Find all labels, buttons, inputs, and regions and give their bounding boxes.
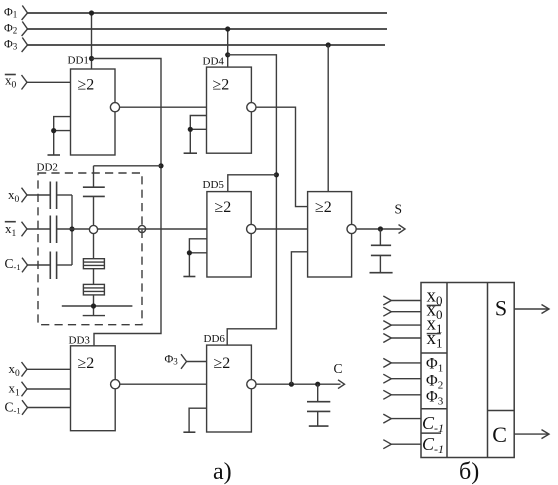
wire Φ2 to DD4 top pin [227, 29, 229, 67]
pin label x1 [427, 313, 443, 336]
gate DD1 [68, 55, 120, 156]
svg-text:x1: x1 [9, 381, 21, 399]
junction on Φ1 bus [89, 10, 94, 15]
junction S output node [378, 226, 383, 231]
label x0 input (DD2) [8, 187, 20, 205]
wire x0 to DD3 [27, 368, 71, 370]
capacitor C (x0 coupling) [50, 182, 56, 210]
gate DD5 [203, 179, 256, 277]
input terminal chevron C-1 (b) [383, 414, 391, 423]
label Φ3 [4, 37, 18, 52]
junction on Φ3 bus [326, 42, 331, 47]
wire Φ3 bus [28, 44, 386, 46]
wire C-1 (b) [391, 418, 421, 420]
label Φ1 [4, 5, 17, 20]
label x0 input (DD3) [9, 361, 21, 379]
pin label Φ3 [426, 388, 444, 407]
svg-text:DD2: DD2 [37, 162, 58, 174]
capacitor on C output [307, 384, 330, 426]
input terminal chevron x0 [22, 362, 28, 377]
svg-text:C: C [334, 361, 343, 376]
input terminal chevron x1 (b) [383, 321, 391, 330]
input terminal chevron Φ3 [181, 354, 187, 369]
arrow head S output [399, 225, 406, 234]
ground (DD2) [62, 306, 133, 316]
ground at S capacitor [370, 272, 393, 274]
label C-1 input (DD3) [5, 400, 21, 416]
input terminal chevron x0 (b) [383, 296, 391, 305]
wire C̄-1 (b) [391, 443, 421, 445]
svg-text:≥2: ≥2 [215, 199, 232, 216]
wire C-1 to coupling cap [28, 264, 51, 266]
svg-text:≥2: ≥2 [78, 355, 95, 372]
DD2 dashed boundary box [38, 173, 142, 325]
label C-1 input [5, 256, 21, 272]
pin label C-1 [422, 413, 444, 435]
wire DD3 output to DD6 input [120, 383, 207, 385]
wire x̄1 to coupling cap [27, 228, 50, 230]
wire VT2 to ground [93, 295, 95, 316]
boundary terminal circle on DD2 box [138, 225, 145, 232]
ground at C capacitor [309, 425, 329, 427]
wire Φ3 (b) [391, 394, 421, 396]
wire DD1 output to DD4 input [120, 106, 207, 108]
capacitor C (C-1 coupling) [50, 252, 56, 280]
wire DD6 out up to S-gate lower input [291, 252, 307, 384]
block DD (one-bit adder, part b) [421, 283, 514, 458]
capacitor C (x̄1 coupling) [50, 216, 56, 244]
wire Φ2 (b) [391, 378, 421, 380]
arrow head C output (b) [542, 430, 550, 439]
input terminal chevron x1 [22, 382, 28, 397]
svg-text:DD6: DD6 [204, 333, 226, 345]
input terminal chevron Φ3 (b) [383, 390, 391, 399]
svg-text:C-1: C-1 [422, 434, 444, 456]
input terminal chevron C̄-1 (b) [383, 440, 391, 449]
node circle (DD2 internal node) [89, 225, 97, 233]
ground tie DD5 unused inputs [183, 239, 207, 277]
svg-text:S: S [395, 202, 403, 217]
wire S output (b) [514, 308, 549, 310]
svg-text:Φ3: Φ3 [4, 37, 18, 52]
label x1 input (DD3) [9, 381, 21, 399]
capacitor storage (DD2 top) [83, 187, 105, 196]
wire branch to DD3 net [92, 59, 162, 346]
transistor VT2 (striped box) [83, 284, 104, 295]
junction DD2 feedback tap on Φ1 net [158, 163, 163, 168]
arrow head S output (b) [542, 305, 550, 314]
wire DD6 output to C arrow [256, 383, 341, 385]
wire Φ2 net vertical run [227, 55, 276, 345]
gate DD6 [204, 333, 256, 432]
svg-text:DD3: DD3 [69, 335, 91, 347]
junction node DD4 top branch [225, 52, 230, 57]
wire x1 (b) [391, 324, 421, 326]
junction node DD1 top branch [89, 56, 94, 61]
junction on Φ2 bus [225, 26, 230, 31]
svg-text:Φ1: Φ1 [4, 5, 17, 20]
input terminal chevron x̄1 (b) [383, 334, 391, 343]
junction C output node [315, 382, 320, 387]
wire x0 cap to summing bus [57, 194, 72, 196]
transistor VT1 (striped box) [83, 259, 104, 269]
gate DD3 [71, 346, 120, 431]
wire x0 to coupling cap [27, 194, 50, 196]
junction DD6 out to S-gate [289, 382, 294, 387]
pin label Φ2 [426, 372, 443, 391]
wire x̄0 to DD1 [27, 81, 71, 83]
wire x̄1 cap to summing node and DD5 input [57, 228, 207, 230]
wire VT1 to VT2 [93, 269, 95, 285]
input terminal chevron x̄1 [22, 222, 28, 237]
input terminal chevron Φ1 (b) [383, 358, 391, 367]
wire Φ1 net tap to storage cap [94, 165, 162, 167]
wire Φ3 to S-gate top pin [327, 45, 329, 192]
wire Φ3 to DD6 [187, 361, 207, 363]
wire x0 (b) [391, 300, 421, 302]
wire node to MOS stack [93, 234, 95, 259]
wire Φ2 bus [28, 28, 388, 30]
pin label x̄1 [427, 333, 441, 335]
gate DD7 (sum output NOR) [308, 192, 357, 277]
svg-text:DD5: DD5 [203, 179, 225, 191]
svg-text:≥2: ≥2 [213, 77, 230, 94]
svg-text:C-1: C-1 [5, 256, 21, 272]
svg-text:Φ2: Φ2 [4, 21, 17, 36]
junction Φ2 net to DD5 [274, 172, 279, 177]
svg-text:DD4: DD4 [203, 56, 225, 68]
input terminal chevron Φ2 (b) [383, 374, 391, 383]
input terminal chevron Φ3 [22, 38, 28, 53]
input terminal chevron C-1 [22, 258, 28, 273]
junction at DD2 ground [91, 303, 96, 308]
pin label x̄0 [427, 304, 441, 306]
wire x1 to DD3 [27, 388, 71, 390]
svg-text:Φ3: Φ3 [165, 351, 179, 366]
svg-text:S: S [495, 295, 507, 320]
arrow head C output [338, 380, 345, 389]
wire Φ1 bus [28, 12, 388, 14]
ground tie DD4 unused inputs [184, 116, 207, 154]
wire x̄1 (b) [391, 337, 421, 339]
wire summing bus vertical [71, 195, 73, 265]
input terminal chevron x0 [22, 188, 28, 203]
input terminal chevron x̄0 (b) [383, 307, 391, 316]
wire DD4 output to S-gate upper input [256, 107, 308, 206]
svg-text:≥2: ≥2 [78, 77, 95, 94]
wire cap to node circle [93, 196, 95, 225]
wire Φ1 to DD1 top pin [91, 13, 93, 69]
capacitor on S output [371, 229, 391, 273]
wire C output (b) [514, 433, 549, 435]
svg-text:x0: x0 [9, 361, 21, 379]
svg-text:x1: x1 [5, 221, 17, 239]
label Φ2 [4, 21, 17, 36]
pin label C̄-1 [422, 432, 442, 434]
svg-text:C: C [492, 422, 507, 447]
svg-text:DD1: DD1 [68, 55, 89, 67]
junction summing node [69, 226, 74, 231]
ground tie DD1 unused inputs [48, 117, 71, 155]
wire DD5 output to S-gate input [256, 228, 308, 230]
label x̄1 input [5, 221, 17, 239]
label Φ3 input (DD6) [165, 351, 179, 366]
svg-text:≥2: ≥2 [315, 199, 332, 216]
svg-text:а): а) [213, 459, 232, 485]
input terminal chevron Φ2 [22, 22, 28, 37]
input terminal chevron Φ1 [22, 6, 28, 21]
wire x̄0 (b) [391, 311, 421, 313]
pin label x0 [427, 286, 443, 309]
wire C-1 to DD3 [28, 407, 71, 409]
input terminal chevron C-1 [22, 400, 28, 415]
input terminal chevron x̄0 [22, 75, 28, 90]
pin label Φ1 [426, 356, 443, 375]
wire Φ1 (b) [391, 362, 421, 364]
ground tie DD6 unused input [183, 408, 206, 432]
svg-text:≥2: ≥2 [214, 355, 231, 372]
wire C-1 cap to summing bus [57, 264, 72, 266]
wire S-gate output [356, 228, 401, 230]
svg-text:C-1: C-1 [5, 400, 21, 416]
svg-text:x0: x0 [8, 187, 20, 205]
wire Φ2 branch to DD5 top pin [228, 175, 277, 192]
svg-text:б): б) [459, 459, 479, 485]
gate DD4 [203, 56, 256, 154]
svg-text:C-1: C-1 [422, 413, 444, 435]
label x̄0 input [5, 73, 17, 91]
